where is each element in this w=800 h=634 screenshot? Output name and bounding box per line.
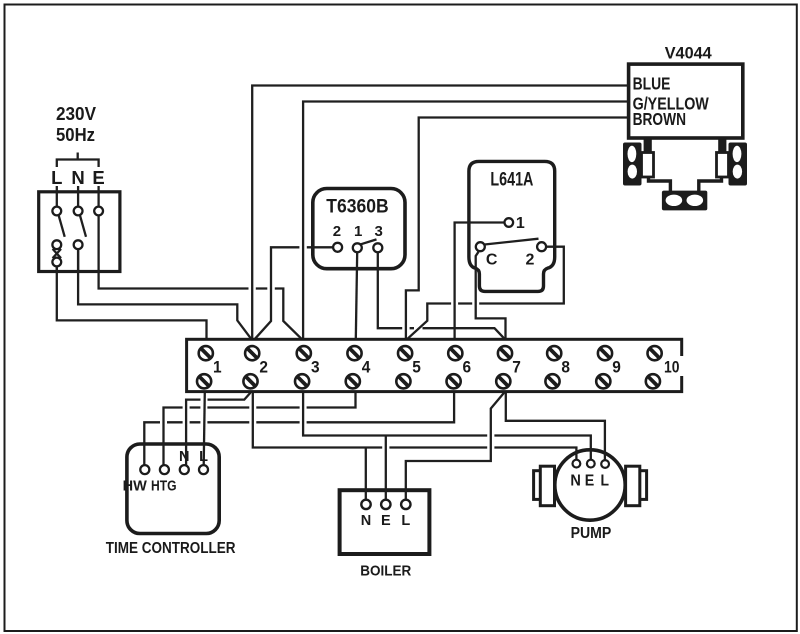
svg-text:1: 1 <box>516 215 525 232</box>
terminal strip body <box>187 339 682 391</box>
svg-text:E: E <box>92 167 104 188</box>
cylinder thermostat L641A body <box>469 161 555 291</box>
wire: time controller HTG to terminal 4 <box>164 392 356 466</box>
L641A switch blade <box>485 239 539 245</box>
svg-text:3: 3 <box>311 359 320 377</box>
wire: BROWN valve wire to terminal 5 <box>406 118 629 340</box>
terminal 8 screws <box>545 346 561 388</box>
wire: L641A pin 2 to terminal 5 <box>407 247 564 340</box>
labels HW HTG <box>123 479 177 495</box>
wire: T6360B pin 3 to terminal 7 <box>378 252 505 339</box>
terminal 6 screws <box>447 346 463 388</box>
svg-text:L641A: L641A <box>490 168 533 190</box>
strip border gap at 10 <box>679 356 686 376</box>
pump body <box>534 450 647 520</box>
terminal 7 screws <box>496 346 512 388</box>
supply L switch blade <box>59 215 65 237</box>
svg-text:BOILER: BOILER <box>360 562 411 579</box>
svg-text:4: 4 <box>362 359 371 377</box>
wire: supply N to terminal 2 <box>78 249 251 339</box>
valve right connector <box>717 153 729 178</box>
pump terminals <box>573 460 609 468</box>
boiler terminals <box>361 500 410 509</box>
wire: neutral rail terminal 2 to boiler N and pump N <box>253 392 577 460</box>
svg-text:C: C <box>486 252 498 269</box>
svg-text:N: N <box>570 473 581 490</box>
svg-text:6: 6 <box>463 359 472 377</box>
supply N switch blade <box>80 215 86 237</box>
svg-text:2: 2 <box>333 223 341 240</box>
wire: terminal 1 to time controller L <box>204 392 205 466</box>
L641A terminals <box>476 218 546 251</box>
wire: supply lead L above box <box>56 186 58 207</box>
wire: L641A pin C to terminal 7 <box>476 252 506 339</box>
svg-text:E: E <box>585 473 595 490</box>
svg-text:HW: HW <box>123 479 147 495</box>
wire: time controller HW to terminal 6 <box>144 392 454 466</box>
terminal 5 screws <box>396 346 412 388</box>
svg-text:V4044: V4044 <box>665 44 713 63</box>
wire: boiler E drop <box>385 436 387 500</box>
motorised valve V4044 actuator box <box>629 64 743 138</box>
label 230V 50Hz <box>56 103 97 145</box>
supply isolator box <box>39 192 120 272</box>
wire: supply lead E above box <box>97 186 99 207</box>
T6360B terminals 2 1 3 <box>333 243 382 253</box>
supply L fuse cross <box>53 249 79 272</box>
svg-text:8: 8 <box>561 359 570 377</box>
wire: T6360B pin 2 to terminal 2 <box>255 247 334 339</box>
valve bottom flange <box>662 191 707 211</box>
svg-text:1: 1 <box>354 223 362 240</box>
svg-text:N: N <box>71 167 84 188</box>
svg-text:BROWN: BROWN <box>633 109 686 129</box>
valve left connector <box>642 153 654 178</box>
wire: L641A pin 1 to terminal 6 <box>455 223 505 340</box>
wire: BLUE valve wire to terminal 2 <box>252 86 628 340</box>
terminal 4 screws <box>346 346 362 388</box>
terminal 2 screws <box>243 346 259 388</box>
svg-text:L: L <box>600 473 609 490</box>
room thermostat T6360B body <box>313 189 405 269</box>
wire: boiler L to terminal 7 <box>406 392 505 500</box>
svg-text:50Hz: 50Hz <box>56 124 95 145</box>
svg-text:L: L <box>51 167 62 188</box>
svg-text:BLUE: BLUE <box>633 74 671 94</box>
labels N E L boiler <box>361 513 411 529</box>
svg-text:7: 7 <box>512 359 521 377</box>
svg-text:9: 9 <box>612 359 621 377</box>
wire: earth rail terminal 3 to boiler E and pump E <box>303 392 591 460</box>
valve left flange <box>623 143 642 186</box>
terminal 10 screws <box>646 346 662 388</box>
wire: supply L to terminal 1 <box>57 266 207 339</box>
wire: terminal 2 to time controller N <box>186 393 250 466</box>
labels 2 1 3 <box>333 223 383 240</box>
svg-text:TIME CONTROLLER: TIME CONTROLLER <box>106 540 236 557</box>
valve body <box>644 138 727 191</box>
supply terminals <box>52 207 103 267</box>
svg-text:230V: 230V <box>56 103 97 124</box>
svg-text:2: 2 <box>259 359 268 377</box>
svg-text:5: 5 <box>412 359 421 377</box>
svg-text:1: 1 <box>213 359 222 377</box>
labels L N E supply <box>51 167 105 188</box>
wire: supply E to terminal 3 <box>99 215 302 339</box>
svg-text:L: L <box>199 449 208 465</box>
svg-text:N: N <box>361 513 371 529</box>
svg-text:T6360B: T6360B <box>326 196 388 218</box>
T6360B switch blade <box>360 239 377 244</box>
boiler body <box>340 490 430 554</box>
wire: terminal 7 to pump L <box>506 392 605 461</box>
terminal 1 screws <box>197 346 213 388</box>
svg-text:HTG: HTG <box>151 479 177 495</box>
svg-text:L: L <box>401 513 410 529</box>
svg-text:10: 10 <box>664 359 680 377</box>
wire: G/YELLOW valve wire to terminal 3 <box>303 102 628 340</box>
svg-text:3: 3 <box>375 223 383 240</box>
time controller body <box>127 444 219 534</box>
labels N L time controller <box>179 449 208 465</box>
svg-text:N: N <box>179 449 189 465</box>
supply bracket <box>57 153 99 168</box>
time controller terminals <box>140 465 208 474</box>
terminal 9 screws <box>596 346 612 388</box>
svg-text:E: E <box>381 513 391 529</box>
terminal 3 screws <box>295 346 311 388</box>
wire: supply lead N above box <box>77 186 79 207</box>
svg-text:2: 2 <box>526 252 535 269</box>
labels N E L pump <box>570 473 609 490</box>
svg-text:PUMP: PUMP <box>571 525 612 542</box>
valve right flange <box>729 143 748 186</box>
wire: boiler N drop <box>365 448 367 500</box>
wire: T6360B pin 1 to terminal 4 <box>356 252 357 339</box>
